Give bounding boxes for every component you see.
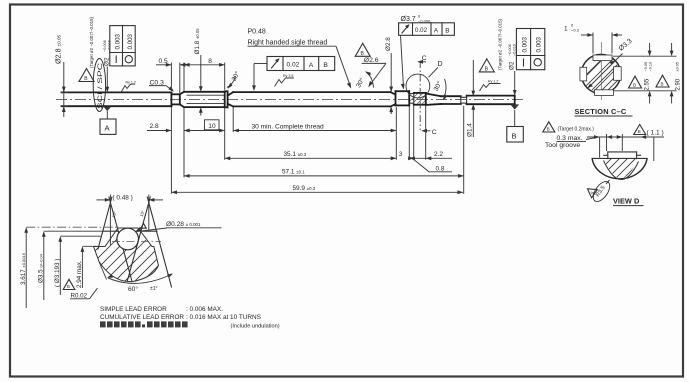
thread end chamfer — [391, 91, 396, 106]
surface finish symbol Ry1.2 left — [122, 80, 136, 91]
detail circle D — [406, 74, 430, 98]
svg-text:Ø2.8: Ø2.8 — [385, 37, 392, 51]
shaft section Dia1.8 threaded — [184, 92, 225, 107]
angle 60 deg arc — [99, 262, 172, 284]
shaft section Dia1.4 — [441, 96, 461, 104]
svg-text:1: 1 — [564, 26, 568, 33]
feature control frame right (0.003/0.003) — [516, 29, 544, 70]
svg-text:Ø2: Ø2 — [509, 61, 516, 70]
VIEW D inner groove arc — [604, 161, 639, 180]
note flag triangle B mid — [355, 43, 370, 57]
dim Dia1.4 rotated with arrows — [472, 60, 474, 137]
svg-text:VIEW D: VIEW D — [613, 197, 640, 206]
note flag triangle B right — [479, 59, 494, 73]
section Dia1.8 thread minor lines — [187, 95, 225, 103]
svg-text:−0.05: −0.05 — [644, 62, 648, 72]
svg-text:3: 3 — [399, 151, 403, 158]
pin centerline — [112, 241, 161, 243]
note flag triangle B tool groove — [543, 122, 555, 132]
svg-text:8: 8 — [208, 58, 212, 65]
svg-text:35.1 ±0.3: 35.1 ±0.3 — [284, 151, 307, 158]
step collar at thread start — [225, 91, 228, 107]
svg-text:3.617 ±0.0016: 3.617 ±0.0016 — [20, 252, 27, 285]
extension lines below shaft — [171, 106, 463, 195]
lead screw thread start chamfer — [228, 92, 234, 106]
VIEW D dim line with arrows — [587, 134, 664, 161]
lead error note line 3 japanese (glyph blocks) — [100, 321, 188, 327]
section after groove — [414, 93, 426, 105]
note flag triangle B section1 — [629, 76, 642, 88]
shaft end section — [467, 96, 515, 105]
svg-text:2.90: 2.90 — [676, 78, 682, 90]
svg-text:57.1 ±0.1: 57.1 ±0.1 — [282, 169, 305, 176]
svg-text:(Target 0.2max.): (Target 0.2max.) — [558, 127, 595, 133]
VIEW D outer arc — [592, 158, 647, 178]
svg-text:P0.48: P0.48 — [248, 29, 266, 36]
note flag triangle B left — [79, 69, 94, 83]
thread crest lines — [103, 230, 157, 232]
section C-C diameter dim diagonal with arrows — [588, 54, 623, 89]
leader from frame to thread — [254, 64, 267, 90]
label C0.3 chamfer with leader — [149, 79, 174, 91]
surface finish symbol Ry1.2 right — [480, 80, 501, 91]
tool groove — [409, 94, 414, 104]
svg-text:−0.10: −0.10 — [648, 62, 652, 72]
dim boxed 10 — [184, 130, 225, 132]
label Dia2.8 +-0.05 rotated — [54, 34, 63, 64]
svg-text:(Target ø2 −0.007/−0.015): (Target ø2 −0.007/−0.015) — [89, 16, 94, 68]
surface finish symbol Ry3.5 on thread — [275, 74, 295, 87]
shaft section 1 body Dia2 — [62, 92, 172, 106]
tool groove leader — [586, 137, 598, 139]
svg-text:2.2: 2.2 — [434, 151, 443, 158]
svg-text:SIMPLE LEAD ERROR: SIMPLE LEAD ERROR — [100, 306, 167, 313]
collar Dia3.7 — [396, 91, 410, 105]
main shaft centerline — [56, 99, 526, 101]
svg-text:0.003: 0.003 — [127, 33, 134, 49]
oval SCI / SPC rotated — [93, 59, 105, 112]
svg-text:0.003: 0.003 — [536, 36, 543, 52]
tool groove hatch — [410, 93, 427, 104]
svg-text:60°: 60° — [128, 285, 138, 293]
section C-C right notch — [614, 67, 622, 81]
flank angle tiny labels — [111, 209, 146, 228]
datum B leader and arrow on end section — [514, 71, 516, 127]
svg-text:±0.05: ±0.05 — [675, 62, 679, 71]
svg-text:Ø2.6: Ø2.6 — [364, 57, 379, 64]
thread profile detail: root fan hatched — [86, 228, 168, 286]
dim 8 length of Dia1.8 — [184, 63, 225, 91]
feature control frame 0.02 A B (thread) — [267, 57, 335, 71]
svg-text:Ø1.4: Ø1.4 — [467, 123, 474, 137]
svg-text:A: A — [309, 62, 314, 69]
svg-text:D: D — [438, 61, 443, 68]
svg-text:B: B — [633, 83, 636, 88]
svg-text:0.8: 0.8 — [436, 165, 445, 172]
dim 1 0/-0.3 top flat — [581, 33, 622, 54]
svg-text:B: B — [512, 131, 517, 140]
svg-text:(Target ø2 −0.007/−0.015): (Target ø2 −0.007/−0.015) — [498, 18, 503, 70]
angle 30 deg at thread end chamfer — [354, 71, 373, 89]
svg-text:2.94 max.: 2.94 max. — [76, 260, 83, 288]
dim Dia1.8 +-0.05 rotated with arrows — [200, 55, 202, 116]
measuring pin circle Dia0.28 — [117, 228, 139, 250]
dim 2.8 neck — [147, 130, 192, 132]
svg-text:B: B — [547, 127, 550, 132]
svg-text:2.8: 2.8 — [150, 123, 159, 130]
svg-text:0.003: 0.003 — [522, 36, 529, 52]
section C-C left notch — [580, 67, 587, 81]
feature control frame 0.02 A B (collar) — [399, 23, 455, 36]
svg-text:0.3 max.: 0.3 max. — [557, 135, 583, 142]
label Dia0.28 with leader — [137, 228, 222, 232]
dim 2.2 — [414, 157, 452, 159]
svg-text:R0.02: R0.02 — [71, 292, 88, 299]
angle 30 deg at cone — [432, 79, 448, 101]
svg-text:Ø1.8 ±0.05: Ø1.8 ±0.05 — [194, 28, 201, 55]
svg-text:Ry 1.2: Ry 1.2 — [488, 80, 498, 84]
svg-text:10: 10 — [208, 123, 216, 130]
title VIEW D — [613, 197, 644, 206]
leader 0.8 — [414, 160, 452, 172]
svg-text:0.02: 0.02 — [415, 27, 428, 34]
30 degree cone transition — [426, 94, 441, 105]
section C-C right extension lines — [613, 56, 677, 91]
svg-text:Ø3.7: Ø3.7 — [401, 16, 416, 23]
dim 57.1 — [184, 175, 464, 177]
svg-text:A: A — [434, 27, 439, 34]
svg-text:2.55: 2.55 — [644, 78, 650, 90]
dim (0.48) pitch — [97, 195, 164, 246]
svg-text:( 0.48 ): ( 0.48 ) — [113, 194, 133, 201]
svg-text:Ry 3.5: Ry 3.5 — [283, 74, 293, 78]
svg-text:Tool groove: Tool groove — [545, 142, 580, 149]
svg-text:30 min. Complete thread: 30 min. Complete thread — [252, 123, 325, 130]
section C-C center line vertical — [600, 42, 602, 100]
svg-text:B: B — [638, 129, 641, 134]
datum A box — [100, 119, 116, 134]
thread profile flank lines — [98, 197, 172, 287]
dim (Dia3.193) line — [60, 236, 101, 295]
note flag triangle B view d — [634, 124, 646, 134]
svg-text:B: B — [661, 82, 664, 87]
leader from collar frame down to collar — [401, 35, 404, 87]
title SECTION C-C — [575, 107, 633, 116]
datum A leader and arrow on Dia2 — [106, 67, 108, 120]
relief groove near end — [461, 96, 467, 105]
svg-text:0.5: 0.5 — [159, 58, 168, 65]
VIEW D plateau boss — [604, 152, 641, 159]
svg-text:Ø3.5 0/−0.04: Ø3.5 0/−0.04 — [37, 253, 44, 283]
svg-text:( Ø3.193 ): ( Ø3.193 ) — [54, 259, 61, 287]
note flag triangle B section2 — [656, 75, 669, 87]
svg-text:−0.006: −0.006 — [508, 44, 512, 56]
svg-text:−0.006: −0.006 — [103, 40, 107, 52]
svg-text:Ry 1.2: Ry 1.2 — [126, 80, 136, 84]
section C-C top notch — [593, 55, 612, 61]
lead runout symbol in frame — [272, 58, 280, 68]
shaft relief neck — [171, 92, 184, 107]
dim 2.90 vertical — [671, 43, 673, 104]
svg-text:( 1.1 ): ( 1.1 ) — [647, 130, 664, 137]
svg-text:B: B — [67, 284, 70, 289]
dim Dia3.5 line — [44, 231, 103, 300]
dim 30 min complete thread — [233, 130, 396, 132]
svg-text:0.02: 0.02 — [287, 62, 300, 69]
dim 0.5 neck width — [156, 63, 188, 94]
dim 59.9 — [171, 191, 463, 193]
note flag triangle B r35 — [585, 185, 598, 198]
svg-text:B: B — [445, 27, 449, 34]
svg-text:±1°: ±1° — [150, 286, 158, 292]
section C-C bottom notch — [595, 90, 614, 96]
dim 35.1 — [225, 157, 397, 159]
SECTION C-C circle — [581, 54, 620, 93]
svg-text:SECTION C–C: SECTION C–C — [575, 107, 627, 116]
VIEW D hatch — [600, 156, 648, 184]
svg-text:: 0.006 MAX.: : 0.006 MAX. — [186, 306, 223, 313]
svg-text:B: B — [323, 62, 328, 69]
section line C-C dashed vertical — [419, 61, 421, 130]
svg-text:Ø0.28 ± 0.001: Ø0.28 ± 0.001 — [166, 221, 201, 228]
svg-text:C: C — [432, 129, 437, 136]
lead screw thread body — [233, 92, 390, 106]
svg-text:−0.3: −0.3 — [571, 28, 580, 33]
dim 0.8 arrows — [408, 156, 415, 160]
dim 3.617 radial line — [25, 229, 27, 309]
svg-text:SCI / SPC: SCI / SPC — [97, 62, 104, 109]
label Dia2 -0.006/-0.016 right rotated — [508, 44, 517, 70]
svg-text:(Include undulation): (Include undulation) — [231, 324, 280, 330]
dim Dia2.8 right rotated with arrows — [390, 53, 392, 114]
dim Dia2.8 left vertical line with arrows — [61, 62, 69, 117]
label R3.5 oval rotated — [590, 179, 613, 205]
note flag triangle B r002 — [63, 279, 75, 289]
svg-text:Right handed sigle thread: Right handed sigle thread — [248, 39, 328, 46]
label Dia2 -0.006/-0.016 rotated — [103, 40, 112, 66]
dim 2.94 max line — [82, 246, 98, 288]
svg-text:: 0.016 MAX at 10 TURNS: : 0.016 MAX at 10 TURNS — [186, 314, 261, 321]
label Dia3.3 rotated with leader — [618, 38, 634, 53]
feature control frame left (straightness/circularity 0.003) — [110, 26, 135, 66]
VIEW D chord line — [592, 157, 647, 159]
datum B box — [507, 127, 524, 143]
svg-text:59.9 ±0.3: 59.9 ±0.3 — [293, 185, 316, 192]
svg-text:CUMULATIVE LEAD ERROR: CUMULATIVE LEAD ERROR — [100, 314, 184, 321]
angle 30 deg label at thread start chamfer — [227, 70, 242, 89]
dim 2.55 vertical — [649, 43, 651, 104]
svg-text:0.003: 0.003 — [115, 33, 122, 49]
pitch line dash-dot left — [26, 226, 118, 228]
label (Target dia2 -0.007/-0.015) rotated — [89, 16, 94, 68]
